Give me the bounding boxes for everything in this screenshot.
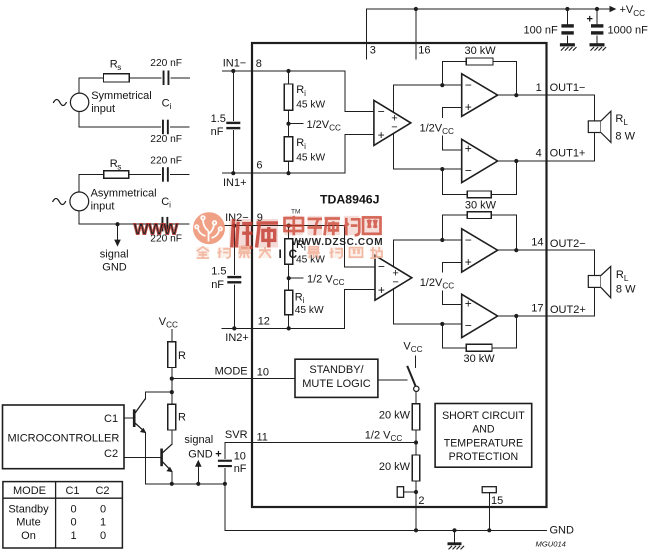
node 10nF/rail <box>223 482 227 486</box>
wire switch to 20kW divider <box>415 392 417 404</box>
wire between 20kW resistors <box>415 430 417 455</box>
svg-text:+: + <box>465 255 472 269</box>
wire 1/2Vcc bracket ch2 power amps <box>442 262 461 304</box>
svg-text:17: 17 <box>531 302 543 314</box>
svg-text:C: C <box>289 247 298 261</box>
resistor Ri 45 kW (ch1 upper) <box>284 84 292 110</box>
svg-text:−: − <box>391 122 397 134</box>
svg-text:GND: GND <box>102 261 127 273</box>
capacitor 100 nF <box>561 24 573 27</box>
svg-text:−: − <box>465 318 472 332</box>
capacitor Ci bottom 220 nF (IN1+) <box>162 120 164 135</box>
svg-text:STANDBY/: STANDBY/ <box>309 364 364 376</box>
node feedback2/- input <box>440 167 444 171</box>
resistor R (lower) <box>168 404 176 430</box>
resistor 30 kW (shared label, OUT1+ feedback) <box>467 191 491 198</box>
svg-text:45 kW: 45 kW <box>296 152 325 163</box>
svg-text:MUTE LOGIC: MUTE LOGIC <box>302 378 371 390</box>
svg-text:15: 15 <box>491 495 503 507</box>
microcontroller box <box>3 405 125 469</box>
svg-text:20 kW: 20 kW <box>379 461 411 473</box>
wire 1/2Vcc stub ch2 <box>289 277 303 279</box>
wire 1000nF cap to rail <box>596 9 598 43</box>
capacitor 10 nF (+ polarity) <box>218 460 232 462</box>
watermark group (dzsc.com) <box>134 209 384 262</box>
svg-text:MODE: MODE <box>13 485 46 497</box>
node 1/2Vcc divider <box>414 440 418 444</box>
wire SVR pin 11 to divider <box>225 442 416 444</box>
wire 100nF cap to rail <box>566 9 568 43</box>
svg-text:220 nF: 220 nF <box>150 155 182 166</box>
svg-text:C1: C1 <box>104 413 118 425</box>
svg-text:1: 1 <box>70 530 76 542</box>
wire IN2+ (pin 12) <box>222 290 375 329</box>
node IN2+ / 1.5nF <box>232 326 236 330</box>
capacitor 1.5 nF (ch1) <box>226 122 240 124</box>
node chassis gnd/GND <box>452 528 456 532</box>
signal GND down arrow <box>117 224 119 240</box>
wire 20kW lower to pin 2 <box>415 481 417 530</box>
wire preamp2 top output to power amp3 - input <box>394 240 462 267</box>
svg-text:−: − <box>465 233 472 247</box>
svg-text:+: + <box>465 142 472 156</box>
resistor 30 kW (OUT2+ feedback) <box>466 344 492 351</box>
wire Vcc to R upper <box>171 330 173 342</box>
svg-text:0: 0 <box>100 530 106 542</box>
svg-text:Standby: Standby <box>8 503 49 515</box>
resistor 20 kW (lower) <box>412 455 420 481</box>
wire pin 16 to rail <box>415 9 417 59</box>
op-amp power amp OUT2- <box>462 229 498 272</box>
svg-text:Mute: Mute <box>16 517 40 529</box>
svg-text:nF: nF <box>234 463 247 475</box>
svg-text:1000 nF: 1000 nF <box>608 25 649 37</box>
sine squiggle (asymmetrical) <box>53 199 66 205</box>
svg-text:220 nF: 220 nF <box>150 58 182 69</box>
svg-text:Symmetrical: Symmetrical <box>91 90 152 102</box>
svg-text:OUT1−: OUT1− <box>550 82 586 94</box>
svg-text:I: I <box>279 247 282 261</box>
capacitor 1.5 nF (ch2) <box>227 276 241 278</box>
svg-text:1.5: 1.5 <box>211 266 226 278</box>
transistor Q2 <box>160 449 163 467</box>
svg-text:s: s <box>117 162 121 171</box>
op-amp IC TDA8946J box <box>252 43 547 507</box>
node OUT1- output <box>514 93 518 97</box>
svg-text:OUT2−: OUT2− <box>550 238 586 250</box>
resistor 30 kW (OUT1- feedback) <box>466 58 493 65</box>
wire OUT1+ output to pin 4 <box>498 160 547 162</box>
svg-text:12: 12 <box>258 315 270 327</box>
svg-text:+: + <box>215 448 221 460</box>
wire symmetrical source loop <box>79 78 190 93</box>
node OUT1+ output <box>514 159 518 163</box>
svg-text:SHORT CIRCUIT: SHORT CIRCUIT <box>442 410 525 422</box>
svg-text:R: R <box>178 350 186 362</box>
node feedback1/- input <box>440 83 444 87</box>
node Ri4 bottom <box>287 326 291 330</box>
resistor 20 kW (upper) <box>412 404 420 430</box>
svg-text:TDA8946J: TDA8946J <box>320 193 379 207</box>
svg-text:R: R <box>178 412 186 424</box>
wire 1.5nF channel 1 <box>232 71 234 173</box>
svg-text:input: input <box>91 200 115 212</box>
resistor 30 kW (OUT2- feedback) <box>467 212 491 219</box>
svg-text:On: On <box>21 530 36 542</box>
svg-text:WWW.DZSC.COM: WWW.DZSC.COM <box>292 237 384 248</box>
node pin2/GND <box>414 528 418 532</box>
node OUT2- output <box>514 248 518 252</box>
source symmetrical input (sine) <box>70 93 88 111</box>
svg-text:100 nF: 100 nF <box>524 25 559 37</box>
wire Ri chain ch1 <box>288 71 290 173</box>
node R lower top junction <box>170 390 174 394</box>
svg-text:+: + <box>587 14 593 26</box>
svg-text:GND: GND <box>188 449 213 461</box>
node signal gnd arrow/rail <box>196 482 200 486</box>
svg-text:signal: signal <box>184 434 213 446</box>
svg-text:MICROCONTROLLER: MICROCONTROLLER <box>8 433 120 445</box>
wire signal gnd rail <box>145 483 225 485</box>
wire SVR to 10nF cap <box>224 443 226 484</box>
wire 1/2Vcc stub ch1 <box>289 123 304 125</box>
protection block box <box>435 404 532 468</box>
svg-text:C1: C1 <box>65 485 79 497</box>
node IN1+ / 1.5nF <box>231 171 235 175</box>
svg-text:+: + <box>465 297 472 311</box>
svg-text:−: − <box>378 259 385 273</box>
node 100nF/rail junction <box>565 7 569 11</box>
wire 1/2Vcc bracket ch1 power amps <box>442 107 461 150</box>
svg-text:input: input <box>91 103 115 115</box>
node asym gnd junction <box>115 222 119 226</box>
wire Ri chain ch2 <box>288 226 290 329</box>
op-amp power amp OUT2+ <box>462 294 498 337</box>
wire feedback OUT2+ <box>442 316 516 348</box>
svg-text:signal: signal <box>100 248 129 260</box>
svg-text:IN1+: IN1+ <box>223 177 247 189</box>
wire logic box to switch <box>378 379 407 381</box>
svg-text:30 kW: 30 kW <box>465 200 497 212</box>
wire OUT2- to speaker 2 <box>547 250 595 275</box>
svg-text:20 kW: 20 kW <box>379 409 411 421</box>
wire R upper to MODE node <box>171 368 173 405</box>
svg-text:14: 14 <box>531 237 543 249</box>
svg-text:10: 10 <box>234 451 246 463</box>
resistor Ri 45 kW (ch2 upper) <box>285 239 293 264</box>
wire OUT2+ to speaker 2 <box>547 287 595 316</box>
resistor Ri 45 kW (ch1 lower) <box>284 137 292 162</box>
wire IN1+ (pin 6) <box>223 135 374 174</box>
svg-text:SVR: SVR <box>225 429 248 441</box>
wire asymmetrical source loop <box>79 174 189 192</box>
node pin2 junction <box>414 490 418 494</box>
svg-text:OUT2+: OUT2+ <box>550 304 586 316</box>
svg-text:C2: C2 <box>104 448 118 460</box>
capacitor Ci top 220 nF (IN1-) <box>163 71 165 86</box>
wire feedback OUT1- <box>442 62 516 96</box>
resistor Ri 45 kW (ch2 lower) <box>285 290 293 314</box>
svg-text:2: 2 <box>418 495 424 507</box>
switch (standby) <box>407 366 415 386</box>
wire Vcc stub to switch <box>415 356 417 367</box>
node Ri midpoint ch1 (1/2 Vcc) <box>286 122 290 126</box>
wire IN2- (pin 9) <box>223 226 375 267</box>
svg-text:0: 0 <box>70 503 76 515</box>
wire Q2 emitter to signal gnd rail <box>171 471 173 483</box>
svg-text:+: + <box>465 100 472 114</box>
+VCC arrow <box>610 6 617 13</box>
op-amp power amp OUT1- <box>462 74 498 117</box>
ground (100nF) <box>560 43 575 46</box>
wire 10nF to GND rail <box>224 484 226 531</box>
wire preamp1 top output to power amp1 - input <box>394 85 462 112</box>
svg-text:4: 4 <box>536 148 542 160</box>
op-amp power amp OUT1+ <box>462 139 498 182</box>
svg-text:nF: nF <box>211 126 224 138</box>
svg-text:16: 16 <box>418 44 430 56</box>
wire pin 15 to GND rail <box>488 493 490 531</box>
node IN2- / 1.5nF <box>232 224 236 228</box>
svg-text:IN1−: IN1− <box>223 57 247 69</box>
svg-text:IN2+: IN2+ <box>225 332 249 344</box>
wire +VCC top rail <box>367 8 612 10</box>
wire feedback OUT1+ <box>442 161 516 194</box>
node pin15/GND <box>487 528 491 532</box>
svg-text:1: 1 <box>536 82 542 94</box>
node pin16/rail junction <box>414 7 418 11</box>
svg-text:s: s <box>117 63 121 72</box>
speaker RL 8W (ch2) <box>588 276 601 288</box>
op-amp preamp ch2 <box>375 255 412 300</box>
svg-text:+: + <box>378 128 385 142</box>
mode truth table <box>3 482 123 548</box>
wire preamp1 bottom output to power amp2 - input <box>394 134 462 170</box>
sine squiggle (symmetrical) <box>54 100 67 106</box>
wire R lower to Q2 collector <box>171 430 173 444</box>
node MODE junction <box>170 377 174 381</box>
svg-text:0: 0 <box>100 503 106 515</box>
svg-text:11: 11 <box>257 432 268 444</box>
wire pin 3 to rail <box>366 9 368 59</box>
svg-text:30 kW: 30 kW <box>465 45 497 57</box>
speaker RL 8W (ch1) <box>588 121 601 133</box>
svg-text:10: 10 <box>257 366 269 378</box>
svg-text:TM: TM <box>291 209 301 216</box>
node Ri3 top <box>287 224 291 228</box>
node Ri2 bottom <box>286 171 290 175</box>
wire GND rail <box>225 529 547 531</box>
svg-text:−: − <box>378 104 385 118</box>
node Ri midpoint ch2 (1/2 Vcc) <box>287 276 291 280</box>
wire OUT2- output to pin 14 <box>498 249 547 251</box>
signal GND up arrow <box>197 467 199 484</box>
node IN1- / 1.5nF <box>231 69 235 73</box>
svg-text:45 kW: 45 kW <box>296 100 325 111</box>
source asymmetrical input (sine) <box>70 192 89 211</box>
svg-text:−: − <box>392 276 398 288</box>
svg-text:6: 6 <box>256 160 262 172</box>
svg-text:8: 8 <box>256 58 262 70</box>
wire OUT1+ to speaker 1 <box>547 133 595 162</box>
ground (1000nF) <box>590 43 605 46</box>
svg-text:8 W: 8 W <box>615 130 635 142</box>
svg-text:GND: GND <box>550 525 575 537</box>
node 1000nF/rail junction <box>595 7 599 11</box>
svg-text:0: 0 <box>70 517 76 529</box>
svg-text:1.5: 1.5 <box>211 113 226 125</box>
node Ri1 top <box>286 69 290 73</box>
svg-text:MGU014: MGU014 <box>536 540 566 549</box>
svg-text:MODE: MODE <box>215 366 248 378</box>
wire OUT1- to speaker 1 <box>547 95 595 121</box>
transistor Q1 <box>133 409 136 427</box>
wire OUT1- output to pin 1 <box>498 94 547 96</box>
op-amp preamp ch1 <box>374 100 411 145</box>
svg-text:OUT1+: OUT1+ <box>550 148 586 160</box>
resistor Rs (symmetrical) <box>104 74 130 82</box>
capacitor 1000 nF (+ polarity) <box>591 24 603 27</box>
pad pin 15 <box>482 487 496 493</box>
standby/mute logic box <box>295 359 378 397</box>
wire IN1- (pin 8) <box>223 71 374 112</box>
svg-text:Asymmetrical: Asymmetrical <box>91 187 157 199</box>
node feedback3/- input <box>440 238 444 242</box>
svg-text:+: + <box>378 283 385 297</box>
capacitor Ci 220 nF (asym bottom) <box>162 217 164 232</box>
svg-text:3: 3 <box>370 45 376 57</box>
pad pin 2 <box>397 487 403 498</box>
svg-text:PROTECTION: PROTECTION <box>449 451 518 463</box>
svg-text:AND: AND <box>472 423 495 435</box>
svg-text:30 kW: 30 kW <box>464 353 496 365</box>
node feedback4/- input <box>440 322 444 326</box>
wire Q1 emitter to signal gnd rail <box>144 432 146 484</box>
node OUT2+ output <box>514 314 518 318</box>
wire preamp2 bottom output to power amp4 - input <box>394 289 462 325</box>
svg-text:C2: C2 <box>95 485 109 497</box>
wire MODE to pin 10 <box>172 378 295 380</box>
capacitor 220 nF (asym top) <box>162 167 164 182</box>
svg-text:45 kW: 45 kW <box>295 305 324 316</box>
svg-text:nF: nF <box>211 279 224 291</box>
node Q2 emitter/rail <box>170 482 174 486</box>
svg-text:−: − <box>465 78 472 92</box>
svg-text:−: − <box>465 163 472 177</box>
resistor R (upper) <box>168 342 176 368</box>
chassis ground symbol <box>454 530 456 542</box>
resistor Rs (asymmetrical) <box>104 171 129 178</box>
wire 1.5nF channel 2 <box>233 226 235 329</box>
wire OUT2+ output to pin 17 <box>498 315 547 317</box>
svg-text:220 nF: 220 nF <box>150 134 182 145</box>
svg-text:8 W: 8 W <box>616 284 636 296</box>
svg-text:1: 1 <box>100 517 106 529</box>
svg-text:TEMPERATURE: TEMPERATURE <box>444 437 523 449</box>
svg-text:WWW: WWW <box>134 222 180 239</box>
wire feedback OUT2- <box>442 215 516 250</box>
